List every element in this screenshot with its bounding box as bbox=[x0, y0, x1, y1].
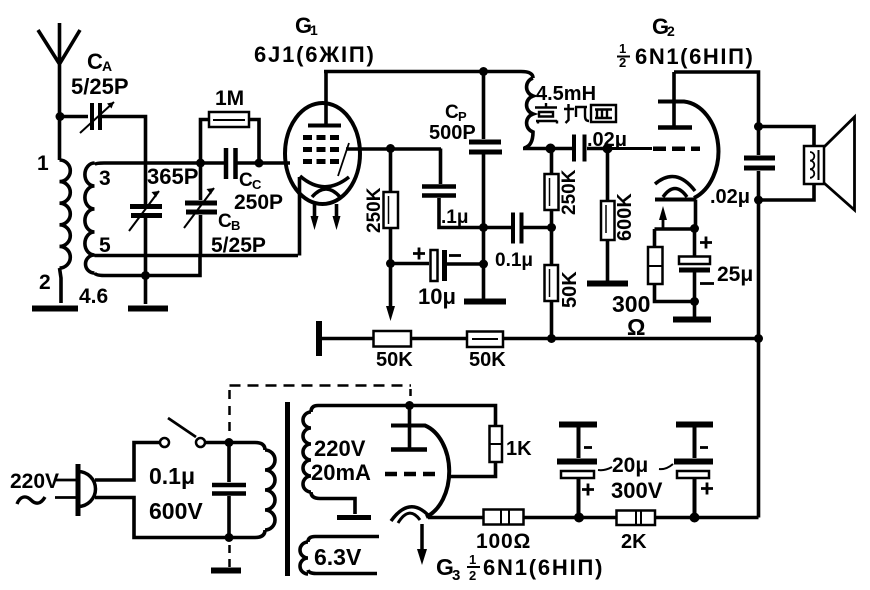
svg-text:0.1μ: 0.1μ bbox=[149, 463, 195, 489]
svg-text:.1μ: .1μ bbox=[441, 207, 468, 228]
svg-text:1: 1 bbox=[619, 41, 626, 56]
wire antenna to CA bbox=[60, 115, 88, 119]
node Cp top junction bbox=[479, 67, 488, 76]
resistor 300 ohm bbox=[648, 229, 694, 302]
speaker cone bbox=[824, 117, 855, 210]
label 高扼圈 (choke coil, CJK approximated) bbox=[535, 103, 616, 124]
capacitor Cp 500P bbox=[469, 72, 502, 300]
svg-text:6.3V: 6.3V bbox=[314, 544, 362, 570]
node filter 1 bbox=[574, 513, 584, 523]
resistor 1M bbox=[201, 112, 260, 163]
G3 plate bar bbox=[391, 447, 427, 452]
svg-text:50K: 50K bbox=[376, 349, 413, 371]
ground bar pot line left bbox=[316, 321, 322, 356]
node cap bottom bbox=[225, 533, 234, 542]
G3 heater arrow bbox=[420, 524, 424, 550]
wire G1 plate lead bbox=[324, 72, 328, 127]
G2 cathode bbox=[655, 176, 695, 191]
wire grid node bbox=[146, 161, 225, 165]
svg-text:3: 3 bbox=[99, 167, 111, 190]
svg-text:4.6: 4.6 bbox=[79, 285, 108, 308]
node G2 cathode junction bbox=[690, 224, 699, 233]
capacitor CA 5/25P (variable trimmer) bbox=[80, 102, 114, 133]
wire G2 plate lead bbox=[672, 72, 676, 127]
switch S1 bbox=[160, 418, 205, 447]
resistor 50K potentiometer (volume) bbox=[374, 331, 412, 347]
svg-text:20mA: 20mA bbox=[311, 460, 371, 485]
arrow onto 50K pot bbox=[386, 306, 395, 321]
svg-text:2: 2 bbox=[39, 271, 51, 294]
wire 100ohm to node bbox=[524, 516, 580, 520]
wire G3 plate lead bbox=[408, 406, 412, 449]
resistor 50K lower bbox=[545, 228, 559, 339]
svg-text:10μ: 10μ bbox=[418, 284, 456, 309]
svg-text:0.1μ: 0.1μ bbox=[495, 250, 533, 271]
capacitor 25u electrolytic bbox=[679, 229, 714, 302]
wire tap5 to G1 cathode riser bbox=[95, 254, 299, 258]
capacitor 365P (variable) bbox=[129, 163, 162, 276]
G1 heater arrow left bbox=[313, 204, 317, 217]
resistor 1K bbox=[410, 406, 503, 477]
wire node to 2K bbox=[579, 516, 617, 520]
speaker transformer box bbox=[804, 146, 824, 184]
svg-text:3: 3 bbox=[452, 567, 460, 584]
svg-text:6N1(6HIП): 6N1(6HIП) bbox=[635, 44, 754, 69]
tube G3 half 6N1 rectifier envelope bbox=[391, 426, 449, 518]
svg-text:250K: 250K bbox=[364, 187, 385, 233]
resistor 50K second bbox=[467, 332, 503, 348]
node 250K bottom junction bbox=[386, 259, 395, 268]
dashed shield box bbox=[230, 386, 412, 568]
inductor 4.5mH choke bbox=[523, 78, 572, 149]
G3 grid dashed bbox=[385, 472, 437, 477]
wire G2 top bus bbox=[674, 72, 759, 155]
G2 plate bar bbox=[658, 125, 692, 130]
node 50K line junction bbox=[547, 334, 556, 343]
svg-text:100Ω: 100Ω bbox=[476, 530, 531, 553]
node 250K2 bottom junction bbox=[547, 223, 556, 232]
svg-text:250K: 250K bbox=[559, 169, 580, 215]
G1 grid row 2 bbox=[303, 147, 339, 152]
node Cc right junction bbox=[255, 159, 264, 168]
capacitor 20u filter 2 bbox=[674, 425, 713, 518]
ground tank bbox=[144, 276, 148, 305]
node pot line to rail junction bbox=[754, 334, 763, 343]
node switch output bbox=[225, 438, 234, 447]
svg-text:C: C bbox=[445, 102, 459, 123]
wire tank bottom to ground node bbox=[95, 255, 201, 276]
label 1/2 6N1(6HIП) bbox=[617, 41, 754, 70]
capacitor CB 5/25P (variable trimmer) bbox=[184, 163, 217, 256]
svg-text:5/25P: 5/25P bbox=[71, 74, 129, 99]
node 25u bottom junction bbox=[690, 297, 699, 306]
inductor L1 antenna coil bbox=[60, 117, 71, 303]
svg-text:B: B bbox=[231, 218, 240, 233]
node tank bottom junction bbox=[141, 271, 150, 280]
svg-text:1K: 1K bbox=[506, 438, 532, 460]
capacitor 10u electrolytic bbox=[391, 248, 484, 282]
wire G1 screen output bbox=[346, 147, 441, 151]
node filter 2 bbox=[690, 513, 700, 523]
wire 2K to node bbox=[655, 516, 694, 520]
node Cp bottom junction 1 bbox=[479, 223, 488, 232]
node 600K top junction bbox=[603, 144, 613, 154]
svg-text:600K: 600K bbox=[614, 193, 636, 241]
svg-text:50K: 50K bbox=[559, 271, 581, 308]
wire plate top bus bbox=[324, 72, 533, 79]
node antenna junction bbox=[56, 112, 65, 121]
G1 internal suppressor tie line bbox=[338, 143, 349, 176]
wire plug top to switch bbox=[95, 443, 160, 481]
wire G2 grid dashed bbox=[610, 147, 652, 150]
resistor 250K (G1 screen load) bbox=[384, 149, 399, 264]
svg-text:5/25P: 5/25P bbox=[211, 234, 266, 257]
svg-text:365P: 365P bbox=[147, 164, 198, 189]
svg-text:300V: 300V bbox=[611, 478, 663, 503]
svg-text:4.5mH: 4.5mH bbox=[536, 83, 596, 105]
capacitor .02u output bbox=[744, 158, 775, 518]
transformer core bbox=[285, 402, 290, 576]
wire G1 cathode to tap5 bbox=[298, 177, 302, 256]
svg-text:25μ: 25μ bbox=[717, 263, 753, 286]
wire speaker top bbox=[759, 127, 815, 147]
node choke to 250K junction bbox=[546, 144, 556, 154]
ground Cp bbox=[464, 299, 506, 305]
G3 cathode bbox=[391, 507, 428, 521]
svg-text:2: 2 bbox=[619, 55, 626, 70]
transformer 6.3V winding bbox=[300, 537, 379, 575]
svg-text:1M: 1M bbox=[215, 87, 244, 110]
svg-text:C: C bbox=[239, 170, 253, 191]
antenna bbox=[38, 23, 80, 117]
resistor 100 ohm bbox=[484, 510, 524, 525]
svg-text:1: 1 bbox=[310, 22, 318, 38]
svg-text:C: C bbox=[252, 177, 262, 192]
tube G2 half 6N1 triode envelope bbox=[655, 102, 718, 200]
resistor 250K second stage grid bbox=[545, 149, 559, 228]
svg-text:6N1(6HIП): 6N1(6HIП) bbox=[483, 555, 604, 580]
wire plug bottom to cap bbox=[95, 498, 225, 538]
label 20u with leaders bbox=[598, 454, 673, 503]
capacitor .1u bbox=[422, 149, 484, 228]
G1 cathode bbox=[300, 176, 349, 187]
svg-text:600V: 600V bbox=[149, 498, 203, 524]
svg-text:C: C bbox=[218, 211, 232, 232]
resistor 600K bbox=[601, 149, 615, 282]
ground chassis below line cap bbox=[211, 568, 241, 574]
wire speaker bottom bbox=[759, 184, 815, 200]
G1 grid row 1 bbox=[303, 135, 339, 140]
svg-text:5: 5 bbox=[99, 234, 111, 257]
wire G2 cathode lead down bbox=[694, 200, 698, 226]
svg-text:50K: 50K bbox=[469, 349, 506, 371]
ground 600K bbox=[587, 281, 628, 287]
capacitor .02u coupling to G2 bbox=[574, 135, 610, 162]
node speaker bottom junction bbox=[754, 196, 763, 205]
transformer HV secondary 220V 20mA bbox=[303, 406, 410, 515]
svg-text:2: 2 bbox=[469, 568, 476, 583]
svg-text:A: A bbox=[102, 58, 112, 74]
ground 25u bbox=[693, 302, 697, 318]
svg-text:Ω: Ω bbox=[627, 314, 645, 340]
wire node to rail bbox=[695, 516, 759, 520]
ground antenna coil bbox=[32, 306, 78, 312]
wire volume wiper lead bbox=[389, 264, 393, 308]
label ~ bbox=[17, 497, 45, 504]
svg-text:250P: 250P bbox=[234, 191, 283, 214]
label 1/2 G3 bbox=[467, 552, 480, 583]
inductor L2 tank coil bbox=[85, 163, 145, 273]
node B+ junction bbox=[405, 401, 414, 410]
svg-text:220V: 220V bbox=[314, 436, 366, 461]
transformer T1 primary bbox=[229, 443, 275, 538]
wire cathode node bbox=[655, 227, 695, 231]
svg-text:500P: 500P bbox=[429, 122, 476, 144]
G1 grid row 3 bbox=[303, 159, 339, 164]
wire pot line bbox=[319, 337, 759, 341]
node grid junction bbox=[196, 159, 205, 168]
node Cp bottom junction 2 bbox=[479, 260, 488, 269]
svg-text:6J1(6ЖIП): 6J1(6ЖIП) bbox=[254, 42, 376, 67]
capacitor 20u filter 1 bbox=[557, 425, 597, 518]
svg-text:1: 1 bbox=[469, 552, 476, 567]
G1 heater arrow right bbox=[335, 204, 339, 217]
node speaker top junction bbox=[754, 122, 763, 131]
ground HV winding bbox=[337, 515, 371, 520]
svg-text:.02μ: .02μ bbox=[710, 186, 750, 208]
node G1 output junction bbox=[386, 144, 395, 153]
svg-text:1: 1 bbox=[37, 152, 49, 175]
arrow cathode heater indicator bbox=[662, 219, 665, 229]
capacitor 0.1u 600V line filter bbox=[212, 443, 246, 538]
plug bbox=[55, 464, 96, 516]
resistor 2K bbox=[617, 511, 656, 526]
svg-text:20μ: 20μ bbox=[612, 454, 648, 477]
capacitor Cc 250P bbox=[226, 148, 290, 179]
svg-text:220V: 220V bbox=[10, 470, 59, 493]
wire CA to tank top bbox=[100, 117, 146, 164]
op-amp well actually vacuum tube G1 6J1 pentode envelope bbox=[285, 103, 360, 204]
capacitor 0.1u coupling bbox=[484, 213, 552, 244]
G1 plate bar bbox=[308, 124, 341, 128]
svg-text:C: C bbox=[87, 49, 103, 74]
svg-text:2: 2 bbox=[667, 23, 675, 39]
wire G3 cathode to 100ohm bbox=[428, 516, 483, 520]
wire switch to node bbox=[205, 441, 229, 445]
svg-text:2K: 2K bbox=[621, 531, 647, 553]
